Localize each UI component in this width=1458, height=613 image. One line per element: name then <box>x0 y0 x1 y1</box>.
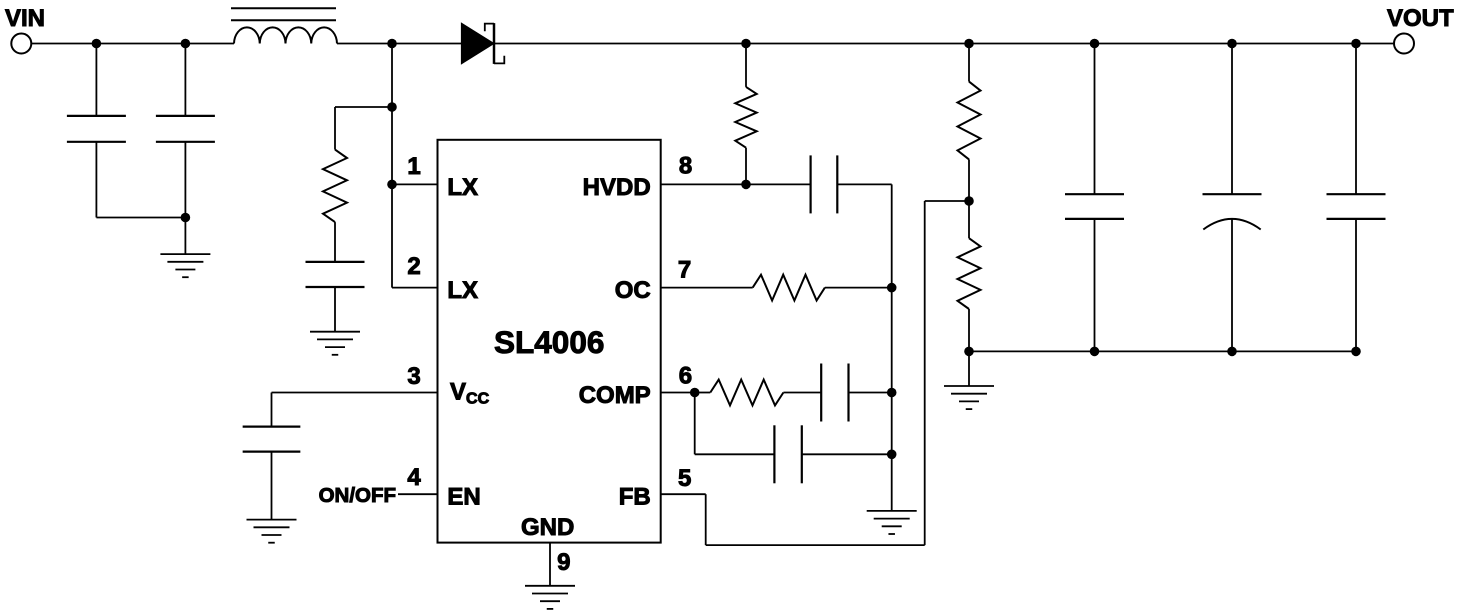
svg-text:3: 3 <box>407 363 420 390</box>
svg-text:6: 6 <box>679 363 692 390</box>
svg-text:LX: LX <box>447 277 478 304</box>
svg-text:VOUT: VOUT <box>1387 5 1454 32</box>
svg-text:COMP: COMP <box>579 382 651 409</box>
svg-text:4: 4 <box>407 464 421 491</box>
svg-text:VIN: VIN <box>5 5 45 32</box>
svg-text:7: 7 <box>678 257 691 284</box>
svg-text:ON/OFF: ON/OFF <box>319 484 396 507</box>
svg-text:SL4006: SL4006 <box>494 324 604 360</box>
svg-text:2: 2 <box>407 253 420 280</box>
svg-text:HVDD: HVDD <box>583 174 651 201</box>
svg-text:8: 8 <box>679 153 692 180</box>
svg-text:FB: FB <box>619 484 651 511</box>
svg-text:1: 1 <box>407 153 420 180</box>
svg-text:EN: EN <box>447 484 480 511</box>
svg-text:5: 5 <box>678 465 691 492</box>
svg-text:LX: LX <box>447 174 478 201</box>
svg-text:9: 9 <box>557 549 570 576</box>
svg-text:GND: GND <box>521 514 574 541</box>
svg-text:OC: OC <box>615 277 651 304</box>
svg-text:VCC: VCC <box>450 379 490 408</box>
